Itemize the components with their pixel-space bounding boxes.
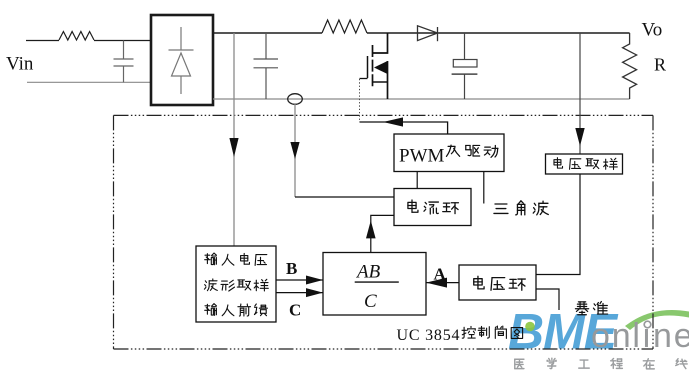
wire: triangle wave stub [483, 172, 485, 204]
resistor (input series) [59, 32, 94, 41]
capacitor (dc link) [254, 33, 279, 99]
transistor Q (boost MOSFET) [360, 33, 388, 99]
BME online watermark logo [508, 304, 689, 360]
wire: multiplier output to current loop [371, 215, 394, 252]
resistor R (load) [623, 33, 637, 99]
wire: input line top [26, 40, 59, 42]
wire: output voltage sense line [579, 33, 581, 154]
svg-text:Vo: Vo [642, 20, 663, 41]
arrow down on current sense line [290, 142, 299, 159]
block: PWM and driver [394, 134, 504, 172]
svg-text:C: C [364, 291, 377, 312]
svg-text:A: A [434, 265, 447, 284]
wire: resistor to bridge [94, 40, 151, 42]
diode D (boost) [418, 26, 438, 41]
wire: dc bottom rail [213, 98, 630, 100]
wire: voltage sample to voltage loop [536, 174, 580, 275]
arrow down on voltage sense line [575, 128, 584, 146]
svg-text:Vin: Vin [6, 54, 34, 75]
label 基准 (reference) [575, 302, 588, 315]
wire: input line bottom [27, 81, 151, 83]
capacitor (input filter) [114, 41, 134, 83]
wire: C input to multiplier [276, 292, 323, 294]
block: current loop 电流环 [394, 189, 471, 226]
arrow down on sample line [229, 138, 238, 157]
dotted gate drive line [359, 79, 361, 122]
arrow left on gate drive [383, 117, 403, 126]
wire: current sense line [294, 104, 296, 197]
arrow up on multiplier output [366, 221, 376, 239]
UC3854 control block dashed border [114, 114, 654, 116]
svg-text:C: C [289, 301, 301, 320]
block: input sampling 输入电压/波形取样/输入前馈 [196, 246, 276, 322]
svg-text:UC 3854: UC 3854 [397, 327, 461, 344]
wire: sense to current loop [295, 196, 394, 198]
wire: B input to multiplier [276, 279, 323, 281]
bridge rectifier box [151, 15, 213, 105]
wire: reference stub 基准 [536, 289, 559, 310]
svg-text:AB: AB [355, 262, 381, 283]
wire: A input from voltage loop [426, 282, 459, 284]
inductor L (boost choke) [322, 20, 367, 33]
bridge diode symbol [169, 27, 194, 94]
block: multiplier AB/C [323, 253, 426, 316]
wire: PWM gate drive [360, 122, 448, 134]
svg-text:B: B [286, 259, 297, 278]
block: voltage sampling 电压取样 [546, 154, 623, 174]
label 三角波 (triangle wave) [494, 204, 508, 213]
svg-text:PWM: PWM [399, 146, 445, 167]
wire: input voltage sample line [233, 33, 235, 246]
node: current sense circle [288, 94, 303, 105]
watermark caption 医学工程在线 [515, 358, 687, 369]
wire: PWM to current loop [416, 172, 418, 189]
wire: dc top rail [213, 32, 322, 34]
svg-text:R: R [654, 54, 666, 74]
block: voltage loop 电压环 [459, 265, 536, 300]
capacitor Co (output electrolytic) [452, 33, 478, 99]
